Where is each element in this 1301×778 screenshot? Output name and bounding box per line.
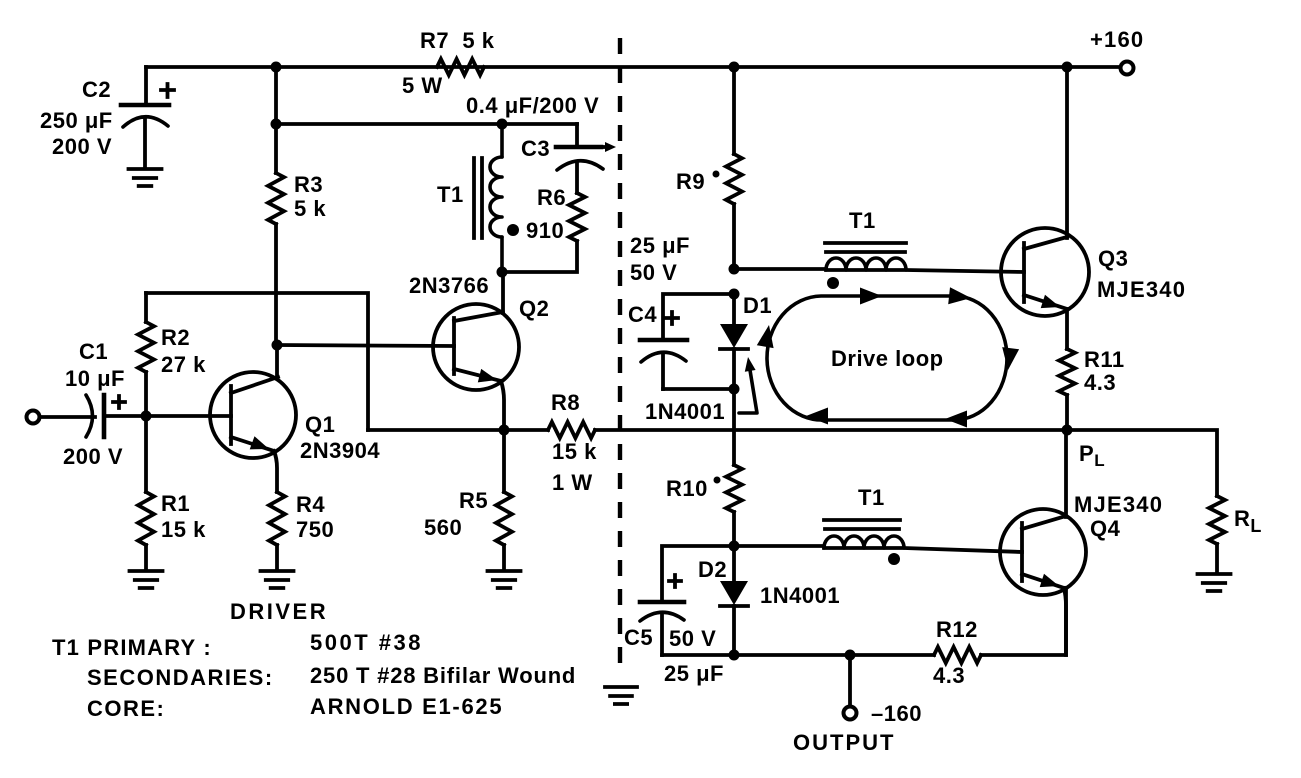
node PL xyxy=(1062,425,1073,436)
svg-text:50 V: 50 V xyxy=(630,260,677,285)
capacitor C2 xyxy=(121,105,169,168)
resistor R4 xyxy=(269,492,285,570)
svg-text:200 V: 200 V xyxy=(52,134,112,159)
transformer T1 lower secondary core xyxy=(824,520,900,529)
transistor Q1 xyxy=(210,372,296,492)
svg-text:200 V: 200 V xyxy=(63,444,123,469)
transistor Q3 xyxy=(1001,228,1089,316)
svg-text:910: 910 xyxy=(526,218,564,243)
svg-text:C3: C3 xyxy=(521,136,550,161)
svg-text:560: 560 xyxy=(424,515,462,540)
resistor R11 xyxy=(1059,309,1075,430)
ground dashed line xyxy=(605,687,637,704)
wire Q1 collector xyxy=(275,345,279,378)
svg-text:Drive loop: Drive loop xyxy=(831,346,944,371)
svg-text:D1: D1 xyxy=(743,293,772,318)
capacitor C1 xyxy=(86,395,104,437)
wire rail2 xyxy=(276,122,577,126)
plus C2 xyxy=(161,84,174,97)
svg-text:Q2: Q2 xyxy=(519,296,549,321)
resistor R6 xyxy=(502,162,585,272)
terminal +160 xyxy=(1121,62,1134,75)
node C4 bottom xyxy=(729,384,740,395)
svg-text:+160: +160 xyxy=(1090,27,1144,52)
svg-text:1N4001: 1N4001 xyxy=(760,583,840,608)
svg-text:ARNOLD E1-625: ARNOLD E1-625 xyxy=(310,694,503,719)
wire Q4 collector xyxy=(1064,430,1068,517)
transistor Q2 xyxy=(433,304,519,430)
svg-text:R5: R5 xyxy=(459,488,488,513)
transistor Q4 xyxy=(1000,509,1086,655)
wire rail1-rail2 xyxy=(274,67,278,124)
svg-text:2N3904: 2N3904 xyxy=(300,438,380,463)
wire bottom rail xyxy=(734,588,1066,655)
svg-text:R1: R1 xyxy=(161,491,190,516)
wire top +160 rail xyxy=(146,65,1120,69)
wire C3 branch top xyxy=(575,124,579,147)
wire right vertical mid xyxy=(732,389,736,465)
diode D2 xyxy=(720,546,748,655)
svg-text:Q4: Q4 xyxy=(1090,516,1121,541)
transformer T1 upper secondary winding xyxy=(826,258,906,270)
svg-text:R3: R3 xyxy=(294,172,323,197)
resistor R8 xyxy=(548,422,595,438)
terminal input xyxy=(27,411,40,424)
node secondary bottom xyxy=(729,541,740,552)
capacitor C4 xyxy=(640,340,687,389)
transformer T1 primary winding xyxy=(490,124,502,272)
node base Q1 xyxy=(141,411,152,422)
svg-text:Q1: Q1 xyxy=(305,412,335,437)
resistor R7 xyxy=(437,59,484,75)
plus C1 xyxy=(113,396,125,408)
wire to T1 lower secondary xyxy=(734,544,824,548)
node C4 top xyxy=(729,289,740,300)
svg-text:T1: T1 xyxy=(849,208,876,233)
terminal output xyxy=(844,707,857,720)
svg-text:MJE340: MJE340 xyxy=(1074,492,1163,517)
capacitor C5 xyxy=(640,602,684,655)
svg-text:OUTPUT: OUTPUT xyxy=(793,730,895,755)
resistor R1 xyxy=(138,416,154,570)
node secondary top xyxy=(729,264,740,275)
wire C4 top branch xyxy=(663,294,734,340)
ground C2 xyxy=(129,169,162,186)
wire main bus xyxy=(368,430,1217,496)
svg-text:T1 PRIMARY :: T1 PRIMARY : xyxy=(52,635,212,660)
svg-text:R12: R12 xyxy=(936,617,978,642)
wire input xyxy=(40,415,95,419)
svg-text:C4: C4 xyxy=(628,302,657,327)
node T1 primary bottom xyxy=(497,267,508,278)
wire to T1 upper secondary xyxy=(734,267,826,271)
svg-text:C2: C2 xyxy=(82,77,111,102)
svg-text:500T #38: 500T #38 xyxy=(310,630,423,655)
node Q2 emitter junction xyxy=(499,425,510,436)
svg-text:10 μF: 10 μF xyxy=(65,366,125,391)
svg-text:T1: T1 xyxy=(858,485,885,510)
wire secondary to Q4 base xyxy=(824,548,1022,552)
plus C4 xyxy=(666,312,678,324)
resistor RL xyxy=(1209,496,1225,573)
svg-text:250 μF: 250 μF xyxy=(40,108,113,133)
resistor R12 xyxy=(934,647,981,663)
capacitor C3 xyxy=(556,142,616,170)
wire Q3 collector xyxy=(1065,67,1069,238)
wire C5 bottom branch xyxy=(662,653,734,657)
ground R5 xyxy=(488,571,521,588)
wire C5 top branch xyxy=(662,546,734,602)
transformer T1 lower secondary winding xyxy=(824,536,904,548)
wire base Q2 xyxy=(277,345,454,346)
wire C1 to base node xyxy=(106,414,231,418)
plus C5 xyxy=(669,575,681,587)
ground R4 xyxy=(261,571,294,588)
svg-text:R7 5 k: R7 5 k xyxy=(420,28,495,53)
node top right vertical xyxy=(729,62,740,73)
wire output drop xyxy=(848,655,852,706)
resistor R3 xyxy=(268,124,284,345)
node Q1 collector xyxy=(272,340,283,351)
transformer T1 upper secondary core xyxy=(825,243,906,252)
pointer D1 type xyxy=(739,357,757,413)
svg-text:750: 750 xyxy=(296,517,334,542)
svg-text:DRIVER: DRIVER xyxy=(230,599,328,624)
node phasing dot primary xyxy=(507,224,519,236)
svg-text:2N3766: 2N3766 xyxy=(409,273,489,298)
node phasing dot lower secondary xyxy=(888,553,900,565)
svg-text:T1: T1 xyxy=(437,182,464,207)
diode D1 xyxy=(720,294,748,389)
svg-text:27 k: 27 k xyxy=(161,352,206,377)
svg-text:250 T #28 Bifilar Wound: 250 T #28 Bifilar Wound xyxy=(310,663,576,688)
wire C2 drop xyxy=(144,67,148,104)
svg-text:15 k: 15 k xyxy=(161,517,206,542)
svg-text:25 μF: 25 μF xyxy=(630,233,690,258)
ground RL xyxy=(1198,574,1231,591)
svg-text:CORE:: CORE: xyxy=(87,696,165,721)
resistor R9 xyxy=(726,67,742,269)
node bottom left xyxy=(729,650,740,661)
drive loop xyxy=(757,287,1019,427)
node junction rail2 xyxy=(271,119,282,130)
svg-text:R11: R11 xyxy=(1084,347,1125,372)
wire C4 bottom branch xyxy=(663,387,734,391)
svg-text:50 V: 50 V xyxy=(669,626,716,651)
svg-text:25 μF: 25 μF xyxy=(664,661,724,686)
svg-text:R6: R6 xyxy=(537,185,566,210)
svg-text:1 W: 1 W xyxy=(552,470,593,495)
svg-text:R10: R10 xyxy=(666,476,708,501)
svg-text:MJE340: MJE340 xyxy=(1097,277,1186,302)
svg-text:0.4 μF/200 V: 0.4 μF/200 V xyxy=(466,93,599,118)
svg-text:4.3: 4.3 xyxy=(1084,370,1116,395)
svg-text:R8: R8 xyxy=(551,390,580,415)
node T1 primary top xyxy=(497,119,508,130)
resistor R2 xyxy=(138,293,154,416)
svg-text:C1: C1 xyxy=(79,339,108,364)
svg-text:1N4001: 1N4001 xyxy=(645,399,725,424)
ground R1 xyxy=(130,571,163,588)
wire secondary to Q3 base xyxy=(826,270,1024,272)
node output xyxy=(845,650,856,661)
svg-text:15 k: 15 k xyxy=(552,439,597,464)
resistor R5 xyxy=(496,430,512,570)
svg-text:R9: R9 xyxy=(676,169,705,194)
svg-text:R4: R4 xyxy=(296,492,325,517)
transformer T1 primary core xyxy=(474,158,482,238)
svg-text:5 W: 5 W xyxy=(402,73,443,98)
svg-text:4.3: 4.3 xyxy=(933,663,965,688)
node junction top-left xyxy=(271,62,282,73)
resistor R10 xyxy=(726,465,742,546)
svg-text:SECONDARIES:: SECONDARIES: xyxy=(87,665,274,690)
wire feedback R2 top xyxy=(146,293,368,430)
svg-text:5 k: 5 k xyxy=(294,196,326,221)
svg-text:C5: C5 xyxy=(624,625,653,650)
svg-text:Q3: Q3 xyxy=(1098,246,1128,271)
node phasing dot upper secondary xyxy=(827,277,839,289)
wire Q2 collector xyxy=(501,272,505,313)
divider dashed line xyxy=(618,38,622,668)
svg-text:D2: D2 xyxy=(698,557,727,582)
svg-text:R2: R2 xyxy=(161,325,190,350)
svg-text:–160: –160 xyxy=(871,701,922,726)
node +160 xyxy=(1062,62,1073,73)
